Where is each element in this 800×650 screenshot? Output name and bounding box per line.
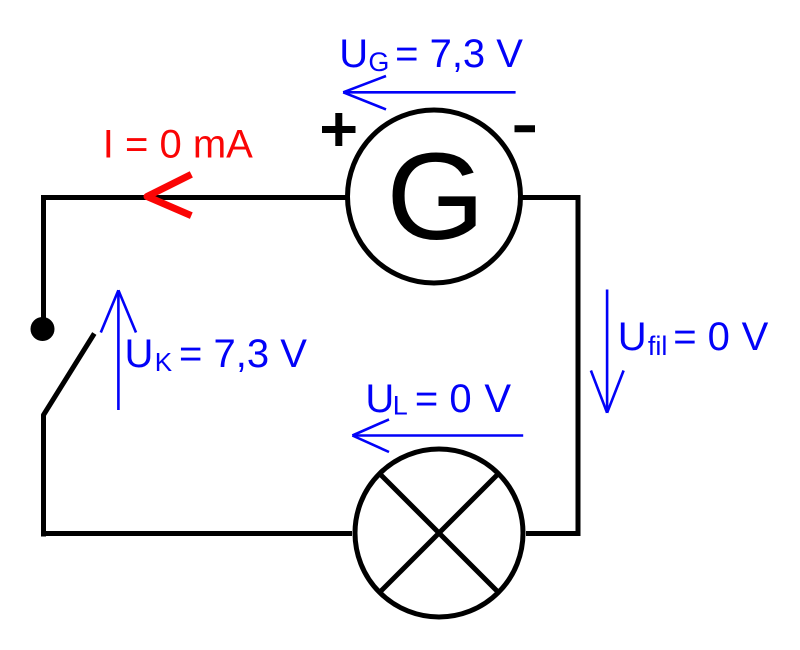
- lamp cross: [380, 474, 499, 593]
- svg-text:I = 0 mA: I = 0 mA: [103, 123, 253, 167]
- svg-text:K: K: [155, 347, 173, 377]
- label U_fil = 0 V (blue): [618, 315, 769, 361]
- node dot: [31, 317, 55, 341]
- svg-text:= 0: = 0: [415, 377, 472, 421]
- arrow U_K (blue, up-pointing): [101, 290, 136, 410]
- generator U1 circle: [348, 110, 521, 283]
- svg-text:L: L: [393, 391, 408, 421]
- lamp L1 circle: [355, 449, 523, 617]
- minus terminal: [515, 125, 536, 132]
- svg-text:V: V: [742, 315, 769, 359]
- switch blade (open): [44, 334, 95, 537]
- svg-text:U: U: [618, 315, 647, 359]
- wire bottom horizontal: [41, 531, 352, 536]
- svg-text:= 7,3 V: = 7,3 V: [395, 32, 523, 76]
- plus terminal: [322, 113, 356, 146]
- svg-text:G: G: [368, 47, 389, 77]
- svg-text:= 0: = 0: [673, 315, 730, 359]
- current arrow (red): [147, 174, 191, 215]
- arrow U_L (blue, left-pointing): [352, 419, 523, 452]
- arrow U_G (blue, left-pointing): [343, 76, 515, 109]
- label U_K = 7,3 V (blue): [125, 332, 308, 377]
- svg-text:U: U: [339, 32, 368, 76]
- svg-text:= 7,3 V: = 7,3 V: [179, 332, 307, 376]
- arrow U_fil (blue, down-pointing): [591, 290, 624, 413]
- svg-text:U: U: [125, 332, 154, 376]
- svg-text:G: G: [386, 129, 485, 266]
- label U_L = 0 V (blue): [365, 377, 511, 421]
- wire left upper vertical: [41, 195, 46, 320]
- wire right: G to lamp: [522, 198, 578, 534]
- svg-text:fil: fil: [648, 331, 668, 361]
- wire top-left horizontal: [41, 195, 346, 200]
- svg-text:V: V: [484, 377, 511, 421]
- label U_G = 7,3 V (blue): [339, 32, 523, 77]
- svg-text:U: U: [365, 377, 394, 421]
